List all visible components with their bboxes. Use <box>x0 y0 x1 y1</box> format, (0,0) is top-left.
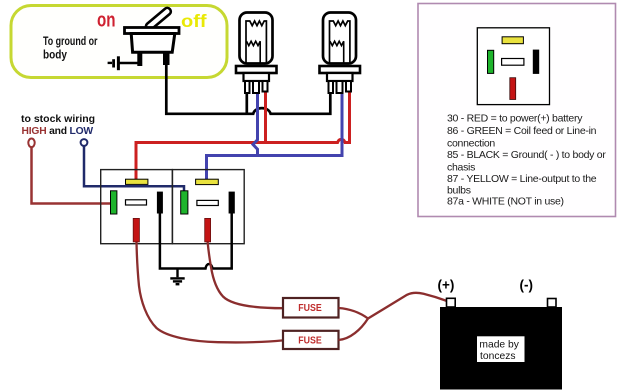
pinout pin 87a (white) <box>502 59 524 66</box>
svg-text:87 - YELLOW = Line-output to t: 87 - YELLOW = Line-output to the <box>447 173 597 185</box>
relay K1 pin 87 (yellow) <box>126 179 148 184</box>
relay K2 <box>172 170 244 244</box>
svg-text:made by: made by <box>479 339 519 350</box>
relay K2 pin 30 (red) <box>205 218 211 242</box>
relay K1 pin 86 (green) <box>111 191 117 214</box>
wire: bulb B1 blue pin <box>253 92 258 156</box>
terminal: LOW <box>81 139 88 146</box>
wire: red feed relay K1 pin 87 to bulbs <box>136 91 350 180</box>
relay K1 pin 85 (black) <box>157 192 163 214</box>
relay K1 pin 30 (red) <box>133 218 139 242</box>
wire: relay K2 pin 30 to fuse F1 <box>208 242 283 308</box>
label: made by toncezs <box>477 336 525 362</box>
wire: fuse F2 to junction <box>339 319 369 341</box>
relay K2 pin 87a (white) <box>197 200 218 205</box>
battery BT1 <box>440 307 562 390</box>
svg-text:on: on <box>97 9 116 31</box>
pinout pin 86 (green) <box>488 50 494 73</box>
ground symbol (relays) <box>170 269 184 285</box>
toggle switch SW1 <box>125 7 180 66</box>
wire: switch to bulbs (black) <box>166 62 330 114</box>
wire: fuse F1 to junction <box>339 308 369 319</box>
pinout pin 30 (red) <box>510 78 516 100</box>
wire: relay K1 pin 30 to fuse F2 <box>137 242 284 342</box>
svg-text:(-): (-) <box>520 278 534 293</box>
svg-text:to stock wiring: to stock wiring <box>21 113 95 125</box>
relay K1 pin 87a (white) <box>126 200 147 205</box>
relay K1 <box>101 170 173 244</box>
annotation box (switch legend) <box>11 6 227 78</box>
svg-text:85 - BLACK = Ground( - ) to: 85 - BLACK = Ground( - ) to body or <box>447 149 606 161</box>
fuse F2 <box>283 331 339 349</box>
fuse F1 <box>283 298 339 318</box>
wire: switch left pin to ground <box>120 62 140 65</box>
pinout pin 87 (yellow) <box>502 37 523 44</box>
svg-text:(+): (+) <box>438 278 455 293</box>
svg-text:To ground or: To ground or <box>43 36 98 48</box>
relay K2 pin 87 (yellow) <box>196 179 219 184</box>
svg-text:30 - RED = to power(+) batte: 30 - RED = to power(+) battery <box>447 112 583 124</box>
terminal: HIGH <box>28 139 34 148</box>
legend box <box>418 4 616 217</box>
battery terminal (-) <box>548 299 557 308</box>
svg-text:off: off <box>181 11 207 31</box>
bulb B1 <box>236 13 277 94</box>
wire: junction to battery (+) <box>368 293 447 319</box>
wire: LOW to relay K2 pin 86 <box>84 146 184 192</box>
wire: bulb B1 black pin <box>245 92 248 114</box>
pinout pin 85 (black) <box>533 50 539 74</box>
svg-text:86 - GREEN = Coil feed or Li: 86 - GREEN = Coil feed or Line-in <box>447 125 597 137</box>
relay K2 pin 85 (black) <box>229 192 235 214</box>
svg-text:chasis: chasis <box>447 161 475 173</box>
svg-text:bulbs: bulbs <box>447 184 471 196</box>
svg-text:body: body <box>43 50 68 62</box>
wire: bulb B1 red pin <box>264 91 267 143</box>
svg-text:FUSE: FUSE <box>298 335 322 346</box>
wire: HIGH to relay K1 pin 86 <box>32 147 111 204</box>
relay K2 pin 86 (green) <box>181 191 188 214</box>
wire: blue feed relay K2 pin 87 to bulbs <box>207 92 343 180</box>
svg-text:connection: connection <box>447 137 495 149</box>
bulb B2 <box>320 13 361 94</box>
legend text <box>447 112 606 207</box>
ground symbol (switch) <box>108 56 119 70</box>
svg-text:toncezs: toncezs <box>480 351 516 362</box>
relay pinout diagram <box>477 28 549 105</box>
battery terminal (+) <box>447 298 456 307</box>
wire: ground bus relays pin 85 <box>160 214 232 269</box>
svg-text:HIGH and LOW: HIGH and LOW <box>22 126 94 137</box>
svg-text:87a - WHITE (NOT in use): 87a - WHITE (NOT in use) <box>447 196 564 208</box>
svg-text:FUSE: FUSE <box>298 303 322 314</box>
